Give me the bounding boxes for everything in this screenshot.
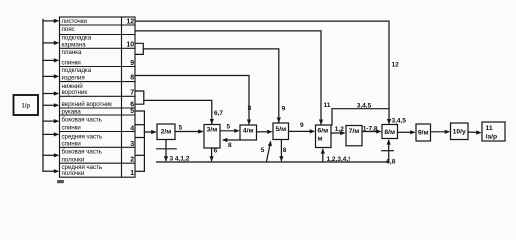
process box 5/m [273,123,289,140]
svg-text:8: 8 [283,147,287,154]
scan speck [57,180,64,183]
feed rail to 8/m with tick label 6,8 [382,139,396,165]
svg-text:3 4,1,2: 3 4,1,2 [170,156,190,163]
process box 1/r [14,95,39,115]
arrow bracket to 2/m [144,130,156,134]
svg-text:2/м: 2/м [161,129,172,136]
bracket rows 7-6 [135,91,143,104]
table row 3 srednyaya chast spinki [62,133,135,148]
svg-text:пояс: пояс [62,26,75,33]
svg-text:12: 12 [126,18,134,25]
table row 4 bokovaya chast spinki [62,116,135,133]
bracket row 10 [135,43,143,54]
svg-text:боковая часть: боковая часть [62,116,103,124]
svg-text:6/м: 6/м [318,128,329,135]
svg-text:верхний воротник: верхний воротник [62,100,113,108]
svg-text:3/м: 3/м [207,127,218,134]
table row 5 rukava [62,108,135,115]
svg-text:8: 8 [130,75,134,82]
feeder arrow row 8 [43,74,59,78]
svg-text:9/м: 9/м [418,129,429,136]
bottom rail [157,161,389,163]
feeder arrow row 10 [43,41,59,45]
arrow 10/u to 11 [468,130,482,134]
table row 11 poyas [62,26,75,33]
svg-text:подкладка: подкладка [62,67,92,74]
svg-text:6: 6 [214,147,218,154]
process box 9/m [416,124,431,141]
table row 1 srednyaya chast polochki [62,164,135,177]
svg-text:5: 5 [261,147,265,154]
feeder arrow row 6 [43,103,59,107]
parts table frame [60,17,136,177]
svg-text:1,2: 1,2 [335,126,344,133]
table row 7 nizhnij vorotnik [62,82,135,96]
svg-text:спинки: спинки [62,141,82,148]
arrow 8/m to 9/m [398,130,416,134]
svg-text:5: 5 [179,125,183,132]
svg-text:2: 2 [130,156,134,163]
flow 8 line [135,76,251,125]
feeder arrow row 12 [43,19,59,23]
svg-text:спинки: спинки [62,124,82,131]
feed rail to 6/m label 1,2,3,4 [321,148,351,163]
svg-text:5/м: 5/м [275,126,286,133]
svg-text:1: 1 [130,170,134,177]
svg-text:12: 12 [392,62,400,69]
flow 12 line [135,21,399,124]
table row 2 bokovaya chast polochki [62,147,135,163]
svg-text:3: 3 [130,141,134,148]
svg-text:изделия: изделия [62,75,85,82]
feeder arrow row 3 [43,132,59,136]
table row 6 verkhnij vorotnik [62,100,135,108]
svg-text:4/м: 4/м [243,127,254,134]
svg-text:6,7: 6,7 [214,110,223,117]
svg-text:1/р: 1/р [21,104,30,110]
process box 4/m [240,125,257,140]
svg-text:7/м: 7/м [349,128,360,135]
svg-text:10: 10 [126,42,134,49]
process box 10/u [451,123,469,140]
table row 9 planka spinki [62,49,135,67]
arrow 5/m to 6/m [289,122,316,133]
process box 8/m [382,125,398,139]
svg-text:6,8: 6,8 [386,158,395,165]
drop 5/m to rail label 8 [279,140,286,162]
arrow 7/m to 8/m [362,126,382,134]
flow 11 line [135,31,330,125]
svg-text:9: 9 [130,60,134,67]
feeder arrow row 9 [43,58,59,62]
svg-text:средняя часть: средняя часть [62,133,103,140]
bypass 3,4,5 from 6/m to 8/m [332,102,389,125]
svg-text:4: 4 [130,126,134,133]
feedback 8 from 4/m to 3/m [222,138,240,149]
svg-text:листочки: листочки [62,18,88,25]
feeder arrow row 1 [43,169,59,173]
svg-text:8: 8 [248,105,252,112]
svg-text:1,2,3,4,!: 1,2,3,4,! [327,156,351,163]
svg-text:рукава: рукава [62,108,82,115]
table row 8 podkladka izdeliya [62,67,135,82]
svg-text:11: 11 [486,125,493,132]
svg-text:воротник: воротник [62,89,88,96]
bracket rows 5-1 [135,111,144,171]
feed rail to 5/m label 5 [261,141,272,162]
arrow 3/m to 4/m [220,123,240,133]
feeder arrow row 4 [43,119,59,123]
process box 11 /a/r [482,122,505,141]
table row 12 listochki [62,18,135,25]
drop 3/m to rail label 6 [210,147,218,161]
svg-text:5: 5 [227,123,231,130]
svg-text:3,4,5: 3,4,5 [357,102,372,109]
svg-text:10/у: 10/у [453,128,466,135]
flow 6,7 line [144,100,224,124]
process box 7/m [346,126,362,146]
svg-text:полочки: полочки [62,170,85,177]
arrow 2/m to 3/m [175,125,204,134]
svg-text:9: 9 [282,106,286,113]
flow 9 line (from row 10) [143,49,285,123]
arrow 4/m to 5/m [257,130,273,134]
svg-text:7: 7 [130,89,134,96]
table row 10 podkladka karmana [62,35,135,49]
svg-text:спинки: спинки [62,59,82,66]
feeder arrow row 7 [43,91,59,95]
svg-text:8/м: 8/м [384,129,395,136]
process box 2/m [157,124,175,140]
svg-text:11: 11 [324,102,331,109]
svg-text:м: м [318,136,323,143]
arrow 6/m to 7/m [331,126,346,135]
svg-text:3,4,5: 3,4,5 [392,118,407,125]
drop 2/m to rail with tick [157,140,190,163]
arrow 9/m to 10/u [431,130,451,134]
svg-text:/а/р: /а/р [486,133,498,140]
svg-text:5: 5 [130,108,134,115]
svg-text:1-7,8: 1-7,8 [363,126,378,133]
process box 6/m [316,125,332,148]
process box 3/m [204,125,220,149]
feeder bus [42,19,44,171]
svg-text:кармана: кармана [62,41,87,48]
svg-text:планка: планка [62,49,82,56]
svg-text:9: 9 [300,122,304,129]
svg-text:боковая часть: боковая часть [62,147,103,155]
feeder arrow row 2 [43,153,59,157]
svg-text:8: 8 [228,142,232,149]
svg-text:полочки: полочки [62,157,85,164]
